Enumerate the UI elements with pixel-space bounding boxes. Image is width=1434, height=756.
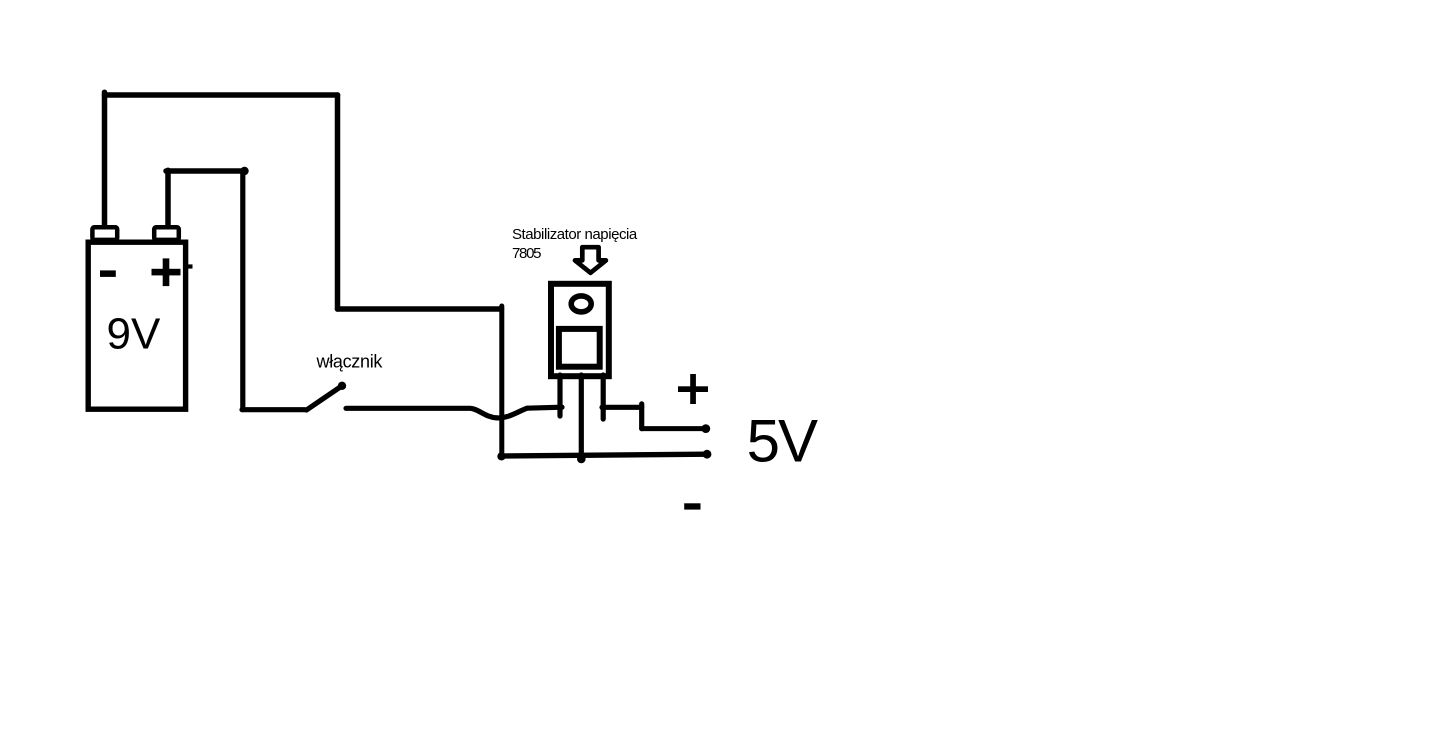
battery B1 body bbox=[88, 242, 185, 409]
wire bbox=[338, 306, 502, 312]
battery negative terminal cap bbox=[92, 227, 117, 240]
svg-text:Stabilizator napięcia: Stabilizator napięcia bbox=[512, 226, 638, 243]
regulator pin 1 input leg bbox=[557, 375, 562, 416]
block arrow pointing down at regulator bbox=[575, 247, 606, 273]
plus output end dot bbox=[701, 424, 710, 433]
junction bbox=[240, 167, 248, 175]
minus output end dot bbox=[703, 450, 712, 459]
svg-text:włącznik: włącznik bbox=[316, 352, 384, 372]
battery minus sign bbox=[100, 270, 116, 277]
wire bbox=[639, 404, 644, 429]
regulator mounting hole bbox=[571, 296, 591, 312]
battery plus sign bbox=[152, 258, 181, 286]
wire bbox=[166, 168, 244, 174]
wire bbox=[642, 426, 706, 431]
regulator inner pad square bbox=[559, 329, 600, 367]
wire bbox=[105, 92, 338, 98]
output minus sign bbox=[684, 503, 700, 509]
regulator U1 7805 package body bbox=[551, 284, 609, 376]
switch blade bbox=[307, 386, 343, 410]
stray tick right of plus bbox=[184, 264, 193, 268]
switch contact dot bbox=[338, 382, 346, 390]
wire bbox=[165, 170, 171, 226]
wire bbox=[335, 95, 341, 309]
output plus sign bbox=[678, 374, 708, 404]
wire bbox=[102, 92, 108, 228]
svg-text:7805: 7805 bbox=[512, 245, 541, 262]
regulator pin 2 ground leg bbox=[579, 375, 584, 460]
wire bbox=[240, 171, 245, 410]
minus rail wire bbox=[502, 454, 708, 456]
minus rail corner dot bbox=[497, 452, 505, 460]
wire bbox=[602, 405, 642, 410]
svg-text:5V: 5V bbox=[747, 408, 818, 475]
battery positive terminal cap bbox=[154, 227, 179, 240]
wire bbox=[346, 407, 562, 418]
wire bbox=[499, 306, 504, 456]
junction dot pin2 to minus rail bbox=[577, 455, 586, 464]
svg-text:9V: 9V bbox=[107, 310, 161, 359]
wire bbox=[242, 407, 305, 412]
regulator pin 3 output leg bbox=[601, 375, 606, 419]
